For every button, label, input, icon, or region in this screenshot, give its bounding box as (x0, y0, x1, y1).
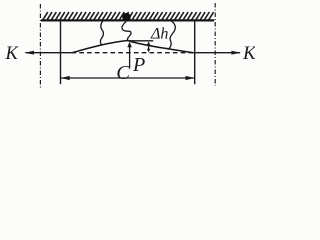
centerline left (dash-dot axis) (39, 4, 41, 88)
svg-text:Δh: Δh (150, 26, 168, 43)
peak level line (128, 40, 153, 42)
arch curve right branch (128, 41, 193, 53)
delta-h dimension arrow (148, 44, 150, 51)
section line K-K solid left with arrowhead (26, 52, 72, 54)
load point dot (122, 13, 131, 22)
extension line right (194, 20, 196, 84)
section line K-K solid right with arrowhead (193, 52, 240, 54)
crack right (169, 21, 176, 50)
svg-text:K: K (5, 44, 20, 64)
arch curve left branch (72, 41, 128, 53)
crack left (100, 21, 103, 45)
svg-text:C: C (116, 62, 130, 84)
roof base line (41, 19, 214, 21)
dimension line C (61, 77, 194, 79)
crack centre (122, 22, 131, 41)
roof hatching (43, 12, 214, 20)
centerline right (dash-dot axis) (214, 3, 216, 86)
section line K-K dashed centre (72, 52, 194, 54)
extension line left (60, 20, 62, 84)
svg-text:P: P (132, 54, 145, 76)
svg-text:K: K (242, 43, 255, 64)
force arrow P (129, 45, 131, 68)
